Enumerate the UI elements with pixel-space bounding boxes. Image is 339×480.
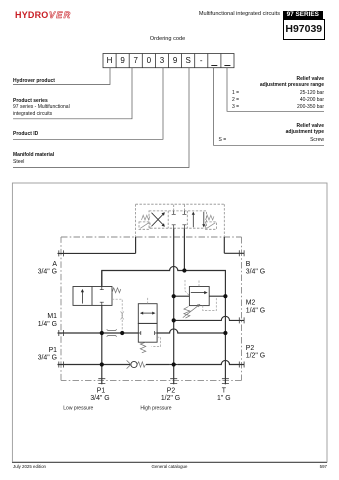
header title xyxy=(199,11,280,17)
leader line: Product ID xyxy=(13,68,163,140)
svg-text:3/4" G: 3/4" G xyxy=(246,268,265,275)
VV1 drain pilot xyxy=(152,337,161,346)
VV1 pilot stub xyxy=(147,297,149,304)
left label: Product series xyxy=(13,98,48,104)
UV1 spring xyxy=(112,288,121,293)
model number box H97039 xyxy=(283,19,325,40)
leader line: Hydrover product xyxy=(13,68,110,85)
junction P riser / M2 line xyxy=(172,318,176,322)
footer rule and texts xyxy=(12,462,327,463)
junction T column / relief outlet xyxy=(223,294,227,298)
wire: P riser xyxy=(173,237,175,384)
leader line: pressure range xyxy=(227,68,324,112)
svg-text:M2: M2 xyxy=(246,300,256,307)
logo HYDROVER xyxy=(15,10,71,20)
svg-text:T: T xyxy=(222,387,227,394)
right label: relief valve adjustment type xyxy=(296,123,324,129)
wire: port P1 bottom line with check valve xyxy=(58,360,245,364)
wire: port B line xyxy=(224,237,244,253)
wire: port A line xyxy=(58,237,136,253)
port B ticks xyxy=(239,250,244,256)
svg-text:3/4" G: 3/4" G xyxy=(90,395,109,402)
RV1 pilot line left xyxy=(185,280,189,296)
wire: unloader vertical xyxy=(101,271,103,385)
leader line: Manifold material xyxy=(13,68,189,168)
vent valve VV1 body (2/2 on M1-T line) xyxy=(138,304,157,342)
UV1 flow arrow xyxy=(81,291,83,303)
check valve CV1 xyxy=(131,361,137,367)
svg-text:P1: P1 xyxy=(49,347,58,354)
junction P1 riser / P1 line xyxy=(100,362,104,366)
left label: Hydrover product xyxy=(13,78,55,84)
leader line: Product series xyxy=(13,68,132,119)
port M2 ticks xyxy=(239,317,244,323)
wire: relief valve RV1 inlet xyxy=(174,295,190,297)
svg-text:P2: P2 xyxy=(246,345,255,352)
port M1 ticks xyxy=(59,330,64,336)
solenoid right xyxy=(206,222,217,229)
wire: unloader to tank line (bridge over P riser) xyxy=(102,266,185,286)
relief valve RV1 body xyxy=(189,287,209,306)
RV1 spring with adjustment arrow xyxy=(184,307,190,319)
UV1 pilot orifice xyxy=(121,312,124,320)
VV1 spring xyxy=(140,342,146,353)
RV1 drain pilot xyxy=(203,298,217,311)
svg-text:A: A xyxy=(52,261,57,268)
wire: P1 connection at P riser xyxy=(170,364,178,366)
right label: relief valve pressure range xyxy=(296,76,324,82)
junction P riser / relief inlet xyxy=(172,294,176,298)
svg-text:1/2" G: 1/2" G xyxy=(161,395,180,402)
unloading valve UV1 body xyxy=(73,287,112,306)
port P2 side ticks xyxy=(239,362,244,368)
port T bottom ticks xyxy=(222,379,229,384)
wire: port M2 line (bridge over T column) xyxy=(174,316,245,320)
svg-text:1/2" G: 1/2" G xyxy=(246,353,265,360)
wire: valve P and T stubs into manifold xyxy=(174,228,185,237)
svg-text:3/4" G: 3/4" G xyxy=(38,268,57,275)
svg-text:P1: P1 xyxy=(97,387,106,394)
wire: right column to bottom port T xyxy=(224,296,226,384)
svg-text:High pressure: High pressure xyxy=(140,405,171,411)
DV1 A-B bridge line xyxy=(136,204,225,237)
wire: T header to right column xyxy=(184,271,225,297)
port labels xyxy=(38,261,265,402)
VV1 blocked ports xyxy=(138,331,157,335)
wire: relief valve RV1 outlet xyxy=(209,295,225,297)
DV1 spring right xyxy=(206,215,214,220)
svg-text:M1: M1 xyxy=(47,313,57,320)
UV1 pilot line xyxy=(112,299,122,331)
wire: M1 line to tank (bridge over P riser) xyxy=(157,329,225,333)
series black box xyxy=(283,11,323,19)
junction pilot tap / M1 line xyxy=(120,331,124,335)
directional valve DV1 4/3 (dashed, mounted on manifold) xyxy=(136,204,225,237)
left label: Manifold material xyxy=(13,152,54,158)
port P1 bottom ticks xyxy=(98,379,105,384)
leader line: adjustment type xyxy=(214,68,325,146)
junction T header / unloader line xyxy=(182,268,186,272)
port P1 side ticks xyxy=(59,362,64,368)
pump descriptions xyxy=(63,405,171,411)
blank cell underscores xyxy=(211,65,230,67)
junction P riser / P1 line xyxy=(172,362,176,366)
left label: Product ID xyxy=(13,131,38,137)
manifold boundary (chain line) xyxy=(61,237,242,380)
main wires xyxy=(58,228,245,384)
orifice on M1 line xyxy=(107,329,117,336)
svg-text:1/4" G: 1/4" G xyxy=(38,321,57,328)
UV1 blocked ports xyxy=(100,287,104,306)
solenoid left xyxy=(139,222,150,229)
svg-text:1" G: 1" G xyxy=(217,395,231,402)
DV1 closed centre port blocks xyxy=(172,211,187,228)
wire: T riser from valve xyxy=(183,237,185,271)
svg-text:B: B xyxy=(246,261,251,268)
junction T column / vent line xyxy=(223,331,227,335)
DV1 spring left xyxy=(142,215,150,220)
ordering code cell letters xyxy=(103,55,234,57)
svg-text:P2: P2 xyxy=(167,387,176,394)
svg-text:Low pressure: Low pressure xyxy=(63,405,93,411)
CV1 spring xyxy=(137,362,145,367)
ordering code boxes grid xyxy=(103,54,234,68)
svg-text:1/4" G: 1/4" G xyxy=(246,307,265,314)
DV1 crossed arrows left position xyxy=(152,213,164,227)
diagram outer frame xyxy=(12,183,327,462)
RV1 flow arrow xyxy=(191,292,206,294)
svg-text:3/4" G: 3/4" G xyxy=(38,354,57,361)
DV1 parallel arrows right position xyxy=(193,212,204,227)
ordering code heading xyxy=(0,36,339,42)
port A ticks xyxy=(59,250,244,383)
wire: port M1 line xyxy=(58,332,139,334)
junction P1 riser / M1 line xyxy=(100,331,104,335)
VV1 double arrow xyxy=(142,312,155,314)
RV1 vent stub xyxy=(198,281,200,287)
port P2 bottom ticks xyxy=(170,379,177,384)
